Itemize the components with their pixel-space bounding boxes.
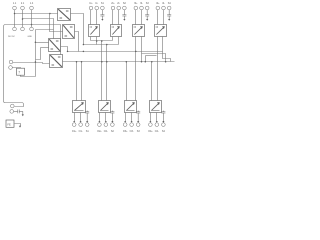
rail B4 (142, 54, 166, 62)
wire net3 to DC/DC U4 top input (32, 25, 61, 55)
wire D4 to terminal O4- (156, 113, 158, 122)
input terminal 4I+ (156, 6, 160, 10)
amplifier A3 (133, 25, 145, 37)
svg-text:GND: GND (28, 36, 33, 38)
wire A3 out left down to output D3 (135, 37, 137, 101)
amplifier A1 (89, 25, 100, 37)
junction rail feeder D1 left (76, 61, 78, 63)
svg-text:O2+: O2+ (97, 130, 102, 133)
bus B3 (68, 52, 171, 62)
svg-text:O3-: O3- (130, 130, 134, 133)
LED D2 (diagnostics) (9, 66, 13, 70)
input terminal 3I- (140, 6, 144, 10)
wire LED D2 to logic box (13, 68, 21, 69)
output terminal O1- (79, 123, 83, 127)
junction U1 feed / bus B2 (83, 44, 85, 46)
junction net1 at column1 (14, 13, 16, 15)
wire A1 out right (96, 37, 98, 45)
input terminal S3 (145, 6, 149, 10)
FE box (functional earth) (6, 120, 14, 127)
wire logic rail horizontal (36, 29, 54, 31)
junction net2 at column2 (22, 18, 24, 20)
wire A2 out left (112, 37, 114, 41)
output terminal S3 (136, 123, 140, 127)
output terminal S2 (111, 123, 115, 127)
input terminal S2 (123, 6, 127, 10)
arrowhead into terminal O2- (105, 121, 107, 123)
arrowhead into terminal O4+ (149, 121, 151, 123)
capacitor C1 (shield to FE) (14, 110, 24, 117)
wire LED D1 to U4 left input (13, 63, 50, 64)
arrowhead into terminal O4- (156, 121, 158, 123)
output stage D4 (150, 101, 162, 113)
wire terminal 1I- to amplifier A1 (96, 10, 98, 25)
wire terminal column 2 (22, 10, 24, 28)
terminal 1.8 (supply row 2) (30, 27, 34, 31)
bus B2 (84, 44, 119, 46)
junction rail feeder D4 left (151, 61, 153, 63)
junction rail B4 / U4 rail (165, 61, 167, 63)
wire terminal 3I- to amplifier A3 (141, 10, 143, 25)
input terminal 2I- (117, 6, 121, 10)
wire into DC/DC U3 left input (36, 42, 49, 44)
wire terminal 3I+ to amplifier A3 (135, 10, 137, 25)
amplifier A4 (155, 25, 167, 37)
junction rail feeder D1 right (81, 61, 83, 63)
wire net +24V to DC/DC U1 (15, 13, 58, 15)
junction LED wire / logic rail (35, 61, 37, 63)
arrowhead into terminal O3+ (124, 121, 126, 123)
wire D1 to terminal O1- (80, 113, 82, 122)
wire terminal 1I+ to amplifier A1 (90, 10, 92, 25)
junction feeder D2 left / rail (101, 61, 103, 63)
DC/DC converter U3 (49, 39, 61, 52)
wire D4 to terminal O4+ (150, 113, 152, 122)
svg-text:4I-: 4I- (162, 2, 165, 5)
input terminal 1I+ (89, 6, 93, 10)
junction bus B2 feeder (106, 44, 108, 46)
output terminal O3- (130, 123, 134, 127)
input terminal 2I+ (111, 6, 115, 10)
junction bus B1 feeder (101, 40, 103, 42)
wire terminal column 1 (14, 10, 16, 28)
DC/DC converter U2 (63, 25, 75, 39)
junction logic rail / U3 input (35, 42, 37, 44)
junction rail feeder D3 left (126, 61, 128, 63)
svg-text:4I+: 4I+ (156, 2, 160, 5)
arrowhead into terminal O1- (80, 121, 82, 123)
shield capacitor to FE group 4 (167, 10, 171, 21)
shield capacitor to FE bottom group 2 (110, 111, 114, 123)
wire D2 to terminal O2+ (99, 113, 101, 122)
wire terminal 4I+ to amplifier A4 (157, 10, 159, 25)
FE arrow (19, 126, 21, 128)
wire terminal 4I- to amplifier A4 (163, 10, 165, 25)
input terminal 4I- (162, 6, 166, 10)
svg-text:FE: FE (7, 122, 11, 126)
arrowhead into terminal O2+ (98, 121, 100, 123)
terminal 1.1 (supply row 1) (13, 6, 17, 10)
terminal 2.1 (supply row 1) (21, 6, 25, 10)
junction rail B5 / rail (145, 61, 147, 63)
output terminal O2- (104, 123, 108, 127)
svg-text:O2-: O2- (104, 130, 108, 133)
junction net3 at column3 (31, 24, 33, 26)
svg-text:1I-: 1I- (95, 2, 98, 5)
DC/DC converter U1 (58, 9, 71, 21)
output terminal O2+ (98, 123, 102, 127)
output terminal O4+ (149, 123, 153, 127)
wire rail feeder D3 left (126, 62, 128, 101)
svg-text:3I+: 3I+ (134, 2, 138, 5)
junction net1 branch (49, 13, 51, 15)
junction U3 out / bus B3 (67, 51, 69, 53)
svg-text:O4+: O4+ (148, 130, 153, 133)
wire rail feeder D4 left (151, 62, 153, 101)
wire FE box to earth arrow (15, 124, 21, 127)
wire net2 to DC/DC U3 top input (23, 19, 54, 39)
wire logic box to rail (21, 76, 36, 77)
bus B1 (91, 40, 113, 42)
output terminal O3+ (123, 123, 127, 127)
terminal 2.2 (supply row 2) (13, 27, 17, 31)
shield capacitor to FE group 2 (122, 10, 126, 21)
output terminal O4- (155, 123, 159, 127)
input terminal S4 (167, 6, 171, 10)
wire D1 to terminal O1+ (74, 113, 76, 122)
junction feeder D2 right / rail (106, 61, 108, 63)
input terminal 1I- (95, 6, 99, 10)
output stage D3 (125, 101, 137, 113)
junction crossing bus B3 (83, 51, 85, 53)
svg-text:7: 7 (18, 70, 20, 74)
svg-text:2I+: 2I+ (111, 2, 115, 5)
wire U3 output to bus B3 (61, 47, 68, 52)
wire terminal 2I- to amplifier A2 (118, 10, 120, 25)
shield capacitor to FE bottom group 3 (136, 111, 140, 123)
terminal 1.4 (supply row 1) (30, 6, 34, 10)
shield capacitor to FE bottom group 4 (161, 111, 165, 123)
wire U1 output to bus B2 (71, 14, 84, 45)
svg-text:O4-: O4- (155, 130, 159, 133)
wire into DC/DC U3 left input 2 (41, 47, 49, 49)
svg-text:O1+: O1+ (72, 130, 77, 133)
svg-text:3I-: 3I- (140, 2, 143, 5)
wire rail feeder D1 right (81, 62, 83, 101)
svg-text:O1-: O1- (79, 130, 83, 133)
junction A3 right / rail (141, 61, 143, 63)
arrowhead into terminal O1+ (73, 121, 75, 123)
wire A2 out right (118, 37, 120, 45)
wire bus B1 down to output D2 left (101, 41, 103, 101)
shield circle B (10, 110, 14, 114)
amplifier A2 (111, 25, 122, 37)
wire net3 left path to FE circle (4, 25, 32, 107)
shield capacitor to FE bottom group 1 (85, 111, 89, 123)
svg-text:1I+: 1I+ (89, 2, 93, 5)
FE terminal circle A (10, 104, 14, 108)
wire A3 out right (141, 37, 143, 62)
output terminal O1+ (72, 123, 76, 127)
input terminal S1 (101, 6, 105, 10)
wire branch to DC/DC U2 input (50, 14, 63, 32)
output stage D1 (73, 101, 86, 113)
shield capacitor to FE group 3 (145, 10, 149, 21)
wire terminal column 3 (31, 10, 33, 28)
LED D1 (diagnostics) (9, 60, 13, 64)
wire D2 to terminal O2- (105, 113, 107, 122)
wire A4 out left down to output D4 (157, 37, 159, 101)
output terminal S1 (85, 123, 89, 127)
arrowhead into terminal O3- (131, 121, 133, 123)
wire A4 out right to bus B3 (162, 37, 164, 52)
wire stub (36, 48, 41, 60)
output terminal S4 (162, 123, 166, 127)
rail B5 (146, 55, 157, 57)
svg-text:2I-: 2I- (117, 2, 120, 5)
DC/DC converter U4 (50, 55, 63, 68)
wire bus B2 down to output D2 right (106, 45, 108, 101)
wire U4 output long rail (63, 61, 175, 63)
junction A3 left / bus B3 (135, 51, 137, 53)
terminal 2.5 (supply row 2) (21, 27, 25, 31)
wire U2 output to bus B3 (75, 32, 79, 52)
shield capacitor to FE group 1 (100, 10, 104, 21)
wire logic rail vertical (35, 30, 37, 77)
logic box U5 (17, 68, 25, 75)
input terminal 3I+ (134, 6, 138, 10)
wire rail feeder D1 left (76, 62, 78, 101)
svg-text:24V DC: 24V DC (8, 36, 16, 38)
junction A1 right / bus B1 (96, 40, 98, 42)
svg-text:O3+: O3+ (123, 130, 128, 133)
wire D3 to terminal O3- (131, 113, 133, 122)
wire rail B5 drop (145, 56, 147, 62)
wire A1 out left (90, 37, 92, 41)
output stage D2 (99, 101, 111, 113)
wire terminal 2I+ to amplifier A2 (112, 10, 114, 25)
wire D3 to terminal O3+ (125, 113, 127, 122)
